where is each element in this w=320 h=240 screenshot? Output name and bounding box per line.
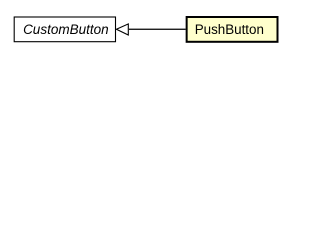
class box PushButton (selected, yellow): [187, 17, 278, 42]
wire: inheritance line: [129, 28, 186, 30]
generalization arrowhead (hollow triangle): [116, 24, 128, 35]
class box CustomButton: [14, 17, 115, 42]
svg-text:PushButton: PushButton: [195, 22, 264, 37]
svg-text:CustomButton: CustomButton: [23, 22, 109, 37]
